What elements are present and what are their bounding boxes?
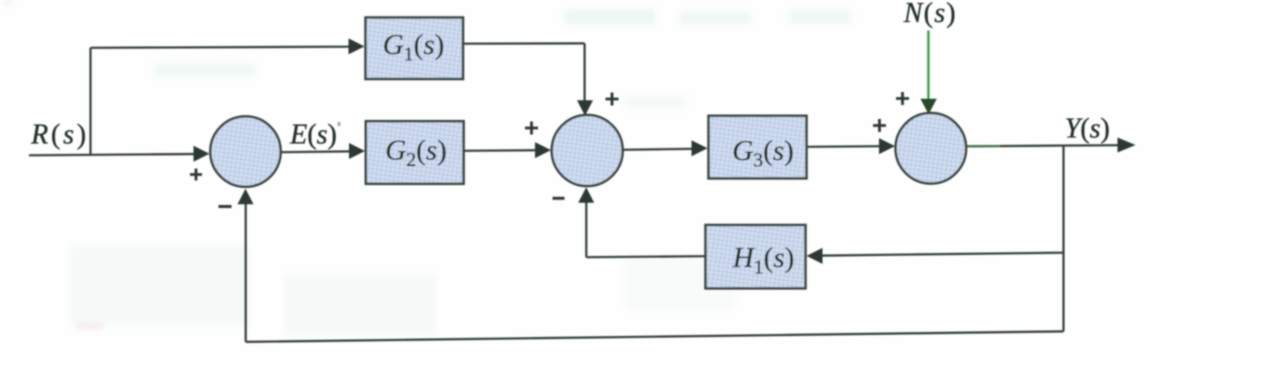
svg-text:H1(s): H1(s)	[732, 242, 795, 279]
arrowhead into sum2 left	[535, 142, 551, 158]
plus sign sum1 left input	[190, 169, 202, 181]
wire: H1 out to sum2 bottom corner	[586, 256, 705, 257]
plus sign sum2 top input	[606, 93, 619, 106]
arrowhead up into sum2 bottom	[578, 187, 594, 203]
arrowhead output Y(s)	[1118, 138, 1136, 153]
svg-text:N(s): N(s)	[903, 0, 957, 29]
summing junction sum1	[210, 116, 280, 186]
minus sign sum1 bottom input	[219, 205, 232, 208]
svg-text:G1(s): G1(s)	[383, 29, 445, 65]
wire: branch vertical down at x=1063	[1062, 146, 1064, 332]
wire: corner down to sum2 top	[583, 43, 585, 102]
arrowhead into G3	[692, 140, 708, 156]
wire: G2 to sum2	[464, 149, 538, 152]
arrowhead into sum3 left	[879, 138, 895, 154]
svg-text:E(s): E(s)	[289, 120, 337, 151]
svg-text:G3(s): G3(s)	[732, 135, 794, 172]
wire: N(s) green drop line	[927, 31, 929, 101]
wire: output rail to Y(s) arrow	[966, 145, 1118, 146]
svg-text:G2(s): G2(s)	[385, 135, 447, 172]
block H1(s)	[706, 225, 806, 288]
plus sign sum3 left input	[873, 119, 886, 132]
wire: outer loop bottom	[246, 331, 1064, 342]
wire: G3 to sum3	[807, 145, 881, 148]
wire: vertical up into sum2 bottom	[585, 202, 587, 258]
arrowhead green into sum3 top	[920, 99, 936, 115]
arrowhead up into sum1 bottom	[238, 189, 254, 205]
arrowhead down into sum2 top	[577, 100, 593, 116]
wire: E(s) rail sum1 to G2	[281, 150, 351, 153]
wire: sum2 to G3	[623, 149, 693, 150]
stray mark after E(s)	[337, 122, 340, 126]
wire: top rail to G1	[91, 47, 351, 48]
arrowhead left into H1	[807, 248, 823, 264]
plus sign sum3 top input	[896, 92, 909, 105]
block G2(s)	[366, 121, 464, 184]
arrowhead into G2	[349, 143, 365, 159]
background ghost bleed-through marks	[3, 1, 850, 335]
minus sign sum2 bottom input	[553, 197, 565, 200]
wire: G1 to corner	[464, 42, 585, 44]
arrowhead into G1	[349, 38, 365, 54]
block G3(s)	[709, 116, 807, 179]
svg-text:Y(s): Y(s)	[1065, 114, 1110, 145]
summing junction sum3	[896, 113, 967, 184]
arrowhead into sum1 left	[194, 146, 210, 162]
summing junction sum2	[552, 115, 623, 186]
wire: feedback rail to H1	[822, 253, 1064, 256]
svg-text:R(s): R(s)	[30, 120, 89, 151]
wire: outer loop vertical up into sum1 bottom	[245, 203, 247, 342]
plus sign sum2 left input	[525, 122, 538, 135]
block G1(s)	[366, 18, 464, 80]
wire: branch vertical up at x=90	[89, 48, 91, 156]
wire: input rail R(s) to sum1	[29, 154, 197, 155]
